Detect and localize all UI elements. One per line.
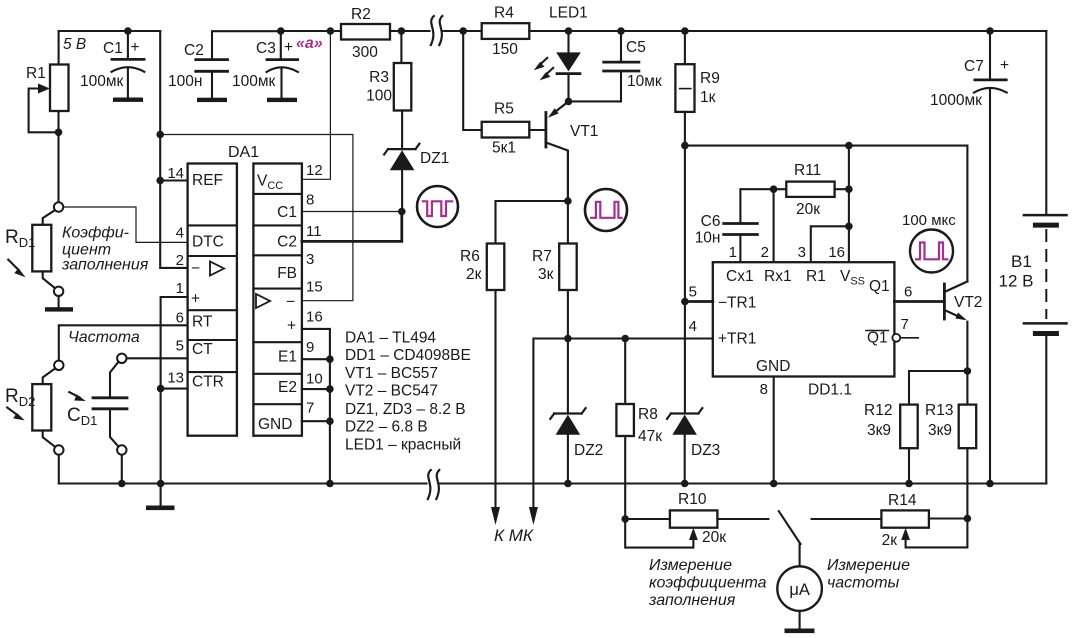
photoresistor RD1 terminal circle top	[54, 202, 63, 211]
svg-text:Q1: Q1	[867, 330, 888, 347]
wire DD1 pin 16 Vss	[848, 146, 850, 263]
wire DA1 pin 11 C2 to DZ1	[302, 212, 402, 242]
node junction DD1 pin 5	[681, 298, 689, 306]
svg-text:RT: RT	[192, 314, 213, 331]
svg-text:1000мк: 1000мк	[930, 92, 982, 109]
svg-text:2: 2	[761, 244, 769, 261]
wire R12 bottom	[908, 448, 910, 483]
resistor R5	[482, 122, 530, 138]
svg-text:12: 12	[306, 162, 323, 179]
wire REF to DA1 pin 15	[160, 135, 353, 301]
photoresistor RD1 terminal circle bottom	[54, 287, 63, 296]
svg-text:4: 4	[176, 225, 184, 242]
wire battery bottom to rail	[1045, 334, 1047, 484]
chip DA1 left box	[188, 164, 237, 436]
svg-text:−TR1: −TR1	[718, 295, 756, 312]
svg-text:+: +	[1000, 57, 1009, 74]
svg-text:+: +	[191, 291, 200, 308]
waveform icon circle 3 pulses	[910, 230, 953, 273]
wire DA1 pin 9 stub	[302, 358, 330, 360]
svg-text:4: 4	[689, 318, 697, 335]
svg-text:DZ1: DZ1	[420, 150, 449, 167]
capacitor C3	[280, 31, 282, 60]
node junction DZ1 output	[398, 208, 406, 216]
wire R13 top	[966, 371, 968, 405]
wire DD1 pin 8 GND to rail	[773, 377, 775, 484]
wire rail break to R4	[442, 30, 482, 32]
svg-text:7: 7	[901, 316, 909, 333]
svg-text:−: −	[286, 294, 295, 311]
svg-text:E1: E1	[278, 349, 297, 366]
svg-text:C2: C2	[277, 234, 297, 251]
wire VT2 emitter down	[966, 322, 968, 371]
svg-text:11: 11	[306, 223, 322, 240]
svg-text:R12: R12	[864, 402, 892, 419]
svg-text:100мк: 100мк	[80, 73, 124, 90]
svg-text:R6: R6	[460, 248, 480, 265]
svg-text:6: 6	[904, 284, 912, 301]
wire top rail C3 to R2	[281, 30, 341, 32]
svg-text:E2: E2	[278, 379, 297, 396]
node junction pin 8 rail	[770, 480, 778, 488]
wire R14 right	[929, 517, 968, 519]
svg-text:DA1 – TL494: DA1 – TL494	[345, 330, 436, 347]
ground under C1	[113, 98, 143, 102]
ground under microammeter	[785, 629, 815, 634]
ground under C2	[197, 98, 227, 102]
capacitor C1	[127, 31, 129, 59]
svg-text:20к: 20к	[796, 201, 820, 218]
wire RD1 to ground	[58, 296, 60, 308]
svg-text:R5: R5	[494, 101, 514, 118]
svg-text:3: 3	[798, 244, 806, 261]
wire R8 bottom to R10	[624, 436, 626, 519]
wire DA1 pin 12 Vcc up to rail	[302, 31, 331, 179]
svg-text:R4: R4	[494, 5, 514, 22]
node junction Vss branch	[845, 142, 853, 150]
node junction R7 top	[564, 197, 572, 205]
node junction C7 top	[986, 27, 994, 35]
svg-text:R9: R9	[700, 70, 720, 87]
svg-text:C2: C2	[184, 42, 204, 59]
wire R3	[400, 31, 402, 63]
wire switch right to R14	[812, 518, 882, 520]
svg-text:20к: 20к	[702, 529, 726, 546]
wire DD1 pin 6 to VT2 base	[894, 300, 944, 303]
svg-text:C7: C7	[964, 58, 984, 75]
wire DD1 pin 3 R1	[811, 226, 849, 262]
node junction R3 top	[398, 27, 406, 35]
wire RD2 top diagonal	[43, 369, 55, 385]
svg-text:C3: C3	[256, 40, 276, 57]
resistor R11	[774, 188, 787, 190]
svg-text:R2: R2	[351, 6, 371, 23]
wire CD1 circle to DA1 pin 5 CT	[127, 357, 188, 359]
svg-text:DZ2: DZ2	[574, 442, 603, 459]
svg-text:Измерение: Измерение	[827, 557, 910, 574]
node junction DZ2 rail	[564, 480, 572, 488]
svg-text:заполнения: заполнения	[61, 257, 149, 274]
wire frequency to DA1 pin 6 RT	[59, 325, 188, 361]
svg-text:10: 10	[306, 371, 323, 388]
wire RD2 bottom to rail	[58, 455, 60, 484]
svg-text:5: 5	[689, 284, 697, 301]
node junction pin14	[156, 177, 164, 185]
wire CD1 top diagonal	[110, 362, 118, 398]
svg-text:R7: R7	[532, 248, 552, 265]
wire DA1 pin 16 to pin 9 bus down to ground rail	[302, 329, 330, 484]
wire R9 bottom to VT2 collector	[685, 146, 968, 282]
svg-text:47к: 47к	[638, 428, 662, 445]
svg-text:8: 8	[760, 381, 768, 398]
svg-text:Измерение: Измерение	[649, 557, 732, 574]
svg-text:5: 5	[176, 338, 184, 355]
ground symbol main	[160, 484, 162, 507]
potentiometer R14	[881, 510, 929, 527]
svg-text:CTR: CTR	[192, 374, 224, 391]
svg-text:100 мкс: 100 мкс	[902, 212, 956, 229]
svg-text:100н: 100н	[168, 73, 202, 90]
wire R5 branch down	[463, 31, 482, 130]
svg-text:DD1 – CD4098BE: DD1 – CD4098BE	[345, 347, 471, 364]
svg-text:C1: C1	[103, 40, 123, 57]
node junction pin 3 to Vss	[845, 223, 853, 231]
svg-text:3к9: 3к9	[928, 422, 952, 439]
microammeter PA1	[777, 566, 822, 611]
wire bottom ground rail	[59, 482, 1047, 484]
wire DA1 pin 8 C1 to DZ1	[302, 211, 402, 213]
wire R10 wiper	[625, 519, 693, 548]
arrow into RD2	[7, 408, 18, 416]
ground under RD1	[45, 307, 73, 311]
zener diode DZ2	[567, 339, 569, 414]
svg-text:6: 6	[176, 310, 184, 327]
wire DD1 pin 5 stub	[685, 300, 713, 303]
resistor R1	[50, 65, 69, 112]
wire R7	[567, 201, 569, 244]
node junction C1 on 5V rail	[124, 27, 132, 35]
svg-text:14: 14	[167, 165, 184, 182]
svg-text:8: 8	[306, 192, 314, 209]
battery B1 dashed middle	[1045, 230, 1047, 318]
arrow into RD1	[8, 260, 19, 271]
wire R6 down to K MK arrow	[494, 290, 496, 507]
node junction LED1 top	[565, 27, 573, 35]
node junction emitter R12 R13	[964, 367, 972, 375]
svg-text:C6: C6	[701, 213, 721, 230]
transistor VT1 emitter with arrow	[556, 101, 569, 111]
svg-text:300: 300	[352, 44, 378, 61]
node junction C5 top	[617, 27, 625, 35]
svg-text:«а»: «а»	[296, 35, 323, 52]
battery B1 cell2 short plate	[1035, 331, 1056, 336]
node junction R10 left	[621, 515, 629, 523]
wire R7 bottom	[567, 290, 569, 339]
variable capacitor CD1 terminal circle top	[117, 354, 126, 363]
photoresistor RD2	[32, 384, 51, 430]
node junction DZ3 bottom rail	[681, 480, 689, 488]
wire 5V rail left: R1 top to C1 junction	[59, 31, 128, 65]
svg-text:15: 15	[306, 279, 323, 296]
capacitor CD1	[93, 398, 127, 409]
ground under C3	[267, 98, 297, 102]
wire +TR1 net	[533, 339, 712, 508]
svg-text:2к: 2к	[882, 532, 898, 549]
svg-text:DA1: DA1	[228, 144, 259, 161]
wire CD1 bottom diagonal	[110, 409, 119, 447]
svg-text:DZ1, ZD3 – 8.2 В: DZ1, ZD3 – 8.2 В	[345, 401, 466, 418]
variable capacitor CD1 terminal circle bottom	[117, 445, 126, 454]
resistor R4	[482, 23, 530, 39]
svg-text:DTC: DTC	[192, 234, 224, 251]
battery B1 cell1 long plate	[1024, 214, 1067, 217]
zener diode DZ3	[667, 408, 702, 419]
node junction R9 bottom	[681, 142, 689, 150]
battery B1 cell2 long plate	[1024, 322, 1067, 325]
wire R10 right to switch	[717, 518, 768, 520]
svg-text:3к: 3к	[538, 266, 554, 283]
svg-text:2: 2	[176, 252, 184, 269]
svg-text:REF: REF	[192, 172, 223, 189]
svg-text:+TR1: +TR1	[718, 331, 756, 348]
svg-text:R11: R11	[794, 162, 821, 179]
svg-text:GND: GND	[756, 358, 790, 375]
photoresistor RD2 terminal circle top	[54, 361, 63, 370]
svg-text:VT2 – BC547: VT2 – BC547	[345, 383, 438, 400]
node junction DA1 bus rail	[326, 480, 334, 488]
wire microammeter to ground	[799, 611, 801, 629]
wire DA1 pin 1 to rail B	[161, 297, 188, 484]
symbol DA1 comparator1 triangle	[210, 262, 224, 276]
wire top rail right corner to battery	[1045, 31, 1047, 215]
svg-text:R10: R10	[678, 491, 707, 508]
svg-text:5 В: 5 В	[63, 36, 86, 53]
svg-text:GND: GND	[258, 416, 292, 433]
chip DD1.1 box	[713, 262, 895, 376]
wire DD1 pin 2 Rx1	[773, 189, 775, 262]
node junction pin 13	[157, 385, 165, 393]
wire rail A down to DA1 pin 2	[160, 31, 187, 268]
svg-text:10н: 10н	[695, 230, 721, 247]
break symbol top rail	[431, 16, 434, 45]
svg-text:DZ3: DZ3	[691, 442, 720, 459]
node junction CD1 rail	[118, 480, 126, 488]
svg-text:1: 1	[176, 280, 184, 297]
wire VT1 collector to R6	[496, 201, 568, 244]
svg-text:100мк: 100мк	[232, 73, 276, 90]
svg-text:Коэффи-: Коэффи-	[62, 225, 129, 242]
svg-text:9: 9	[306, 339, 314, 356]
wire CD1 bottom to rail	[121, 455, 123, 484]
wire R9 down to DD1 pin 5 and DZ3	[684, 146, 686, 414]
transistor VT1 collector	[546, 143, 568, 202]
svg-text:+: +	[287, 318, 296, 335]
svg-text:+: +	[284, 39, 293, 56]
waveform icon circle 1 inverted pulses	[417, 186, 458, 227]
node junction R5 branch	[459, 27, 467, 35]
break symbol bottom rail	[428, 470, 431, 499]
node junction R1 wiper	[55, 129, 63, 137]
battery B1 cell1 short plate	[1035, 223, 1056, 228]
svg-text:+: +	[131, 39, 140, 56]
resistor R9	[684, 31, 686, 64]
svg-text:частоты: частоты	[827, 575, 900, 592]
wire rail R4 to LED1 C5 R9 C7	[529, 30, 1046, 32]
svg-text:150: 150	[492, 41, 518, 58]
transistor VT2 base bar	[943, 284, 946, 319]
svg-text:1к: 1к	[700, 89, 716, 106]
svg-text:12 В: 12 В	[999, 272, 1034, 291]
resistor R13	[959, 405, 977, 449]
svg-text:DZ2 – 6.8 В: DZ2 – 6.8 В	[345, 419, 428, 436]
node junction R8 top	[621, 335, 629, 343]
arrow LED1 emission 2	[546, 68, 553, 75]
node junction LED1 cathode	[565, 98, 573, 106]
svg-text:коэффициента: коэффициента	[649, 575, 767, 592]
wire 5V rail: C1 junction to rail-A corner	[128, 30, 160, 32]
waveform icon circle 2 pulses	[585, 189, 627, 231]
wire switch to microammeter	[799, 544, 801, 566]
node junction R11 right	[845, 185, 853, 193]
svg-text:7: 7	[306, 400, 314, 417]
svg-text:μA: μA	[789, 581, 810, 599]
node junction rail B ground	[157, 480, 165, 488]
node junction C3 on rail	[277, 27, 285, 35]
wire RD2 bottom diagonal	[43, 431, 55, 447]
wire R1 bottom	[57, 111, 59, 202]
wire RD1 top diagonal	[43, 210, 55, 225]
svg-text:LED1: LED1	[549, 5, 588, 22]
node junction pin 7	[326, 417, 334, 425]
svg-text:Q1: Q1	[869, 278, 890, 295]
resistor R6	[487, 244, 505, 291]
node junction DZ2 top	[564, 335, 572, 343]
node junction REF branch	[156, 131, 164, 139]
potentiometer R10	[670, 510, 718, 527]
svg-text:5к1: 5к1	[492, 140, 516, 157]
svg-text:3к9: 3к9	[867, 422, 891, 439]
svg-text:C5: C5	[626, 39, 646, 56]
wire DA1 pin 10 stub	[302, 388, 330, 390]
wire RD1 wiper to DA1 pin4 DTC	[63, 207, 187, 242]
svg-text:Cx1: Cx1	[726, 268, 754, 285]
svg-text:R1: R1	[26, 65, 46, 82]
node junction R11 left	[770, 185, 778, 193]
wire R13 bottom to R14	[966, 448, 968, 518]
svg-text:R13: R13	[925, 402, 953, 419]
svg-text:VT1 – BC557: VT1 – BC557	[345, 365, 438, 382]
resistor R12	[900, 405, 918, 449]
symbol DA1 comparator2 triangle	[256, 294, 270, 308]
transistor VT2 collector	[944, 281, 967, 292]
svg-text:13: 13	[167, 370, 184, 387]
svg-text:−: −	[191, 260, 200, 277]
svg-text:DD1.1: DD1.1	[808, 382, 852, 399]
svg-text:C1: C1	[277, 204, 297, 221]
photoresistor RD2 terminal circle bottom	[54, 445, 63, 454]
svg-text:FB: FB	[277, 265, 297, 282]
svg-text:R8: R8	[638, 406, 658, 423]
wire R5 to VT1 base	[529, 129, 545, 131]
wire R1 wiper arrow	[29, 89, 59, 133]
wire R10 left	[625, 518, 670, 520]
node junction R12 rail	[905, 480, 913, 488]
transistor VT2 emitter with arrow	[944, 310, 958, 316]
capacitor C6	[740, 189, 773, 223]
svg-text:R14: R14	[888, 492, 917, 509]
svg-text:10мк: 10мк	[627, 73, 662, 90]
resistor R7	[559, 244, 577, 291]
svg-text:R1: R1	[806, 268, 826, 285]
svg-text:К МК: К МК	[494, 526, 534, 545]
LED LED1	[567, 31, 569, 52]
svg-text:VT2: VT2	[954, 294, 982, 311]
wire rail R2 to break	[390, 30, 430, 32]
svg-text:В1: В1	[1011, 252, 1032, 271]
wire to R12	[909, 371, 967, 405]
arrow LED1 emission 1	[540, 58, 547, 65]
svg-text:R3: R3	[369, 69, 389, 86]
svg-text:100: 100	[366, 88, 392, 105]
capacitor C5	[620, 31, 622, 62]
wire DA1 pin 13 stub	[161, 388, 188, 390]
wire DA1 pin 14 stub	[160, 179, 187, 181]
transistor VT1 base bar	[545, 113, 548, 148]
svg-text:Частота: Частота	[68, 329, 140, 346]
zener diode DZ1	[384, 144, 419, 155]
svg-text:16: 16	[306, 309, 323, 326]
node junction R14 right	[964, 515, 972, 523]
wire RD1 bottom diagonal	[43, 271, 55, 288]
wire R14 wiper	[906, 519, 968, 548]
resistor R2	[341, 24, 390, 40]
resistor R3	[394, 63, 412, 111]
pin 7 open circle and stub	[892, 334, 900, 342]
svg-text:2к: 2к	[466, 266, 482, 283]
node junction pin 9	[326, 355, 334, 363]
svg-text:LED1 – красный: LED1 – красный	[345, 437, 461, 454]
svg-text:16: 16	[828, 244, 845, 261]
svg-text:3: 3	[306, 251, 314, 268]
arrow into CD1	[69, 392, 79, 397]
capacitor C7	[989, 31, 991, 80]
resistor R8	[624, 339, 626, 405]
switch blade	[779, 511, 801, 544]
wire R3 to DZ1	[401, 111, 403, 150]
photoresistor RD1	[32, 225, 51, 272]
node junction C7 bottom	[986, 480, 994, 488]
svg-text:Rx1: Rx1	[764, 268, 792, 285]
svg-text:VT1: VT1	[570, 123, 598, 140]
svg-text:CT: CT	[192, 341, 213, 358]
svg-text:1: 1	[729, 244, 737, 261]
node junction R9 top	[681, 27, 689, 35]
node junction pin 10	[326, 385, 334, 393]
node junction pin 12 on rail	[327, 27, 335, 35]
chip DA1 right box	[253, 164, 302, 436]
capacitor C2	[212, 31, 281, 59]
wire DA1 pin 7 GND stub	[302, 420, 330, 422]
svg-text:заполнения: заполнения	[648, 592, 736, 609]
